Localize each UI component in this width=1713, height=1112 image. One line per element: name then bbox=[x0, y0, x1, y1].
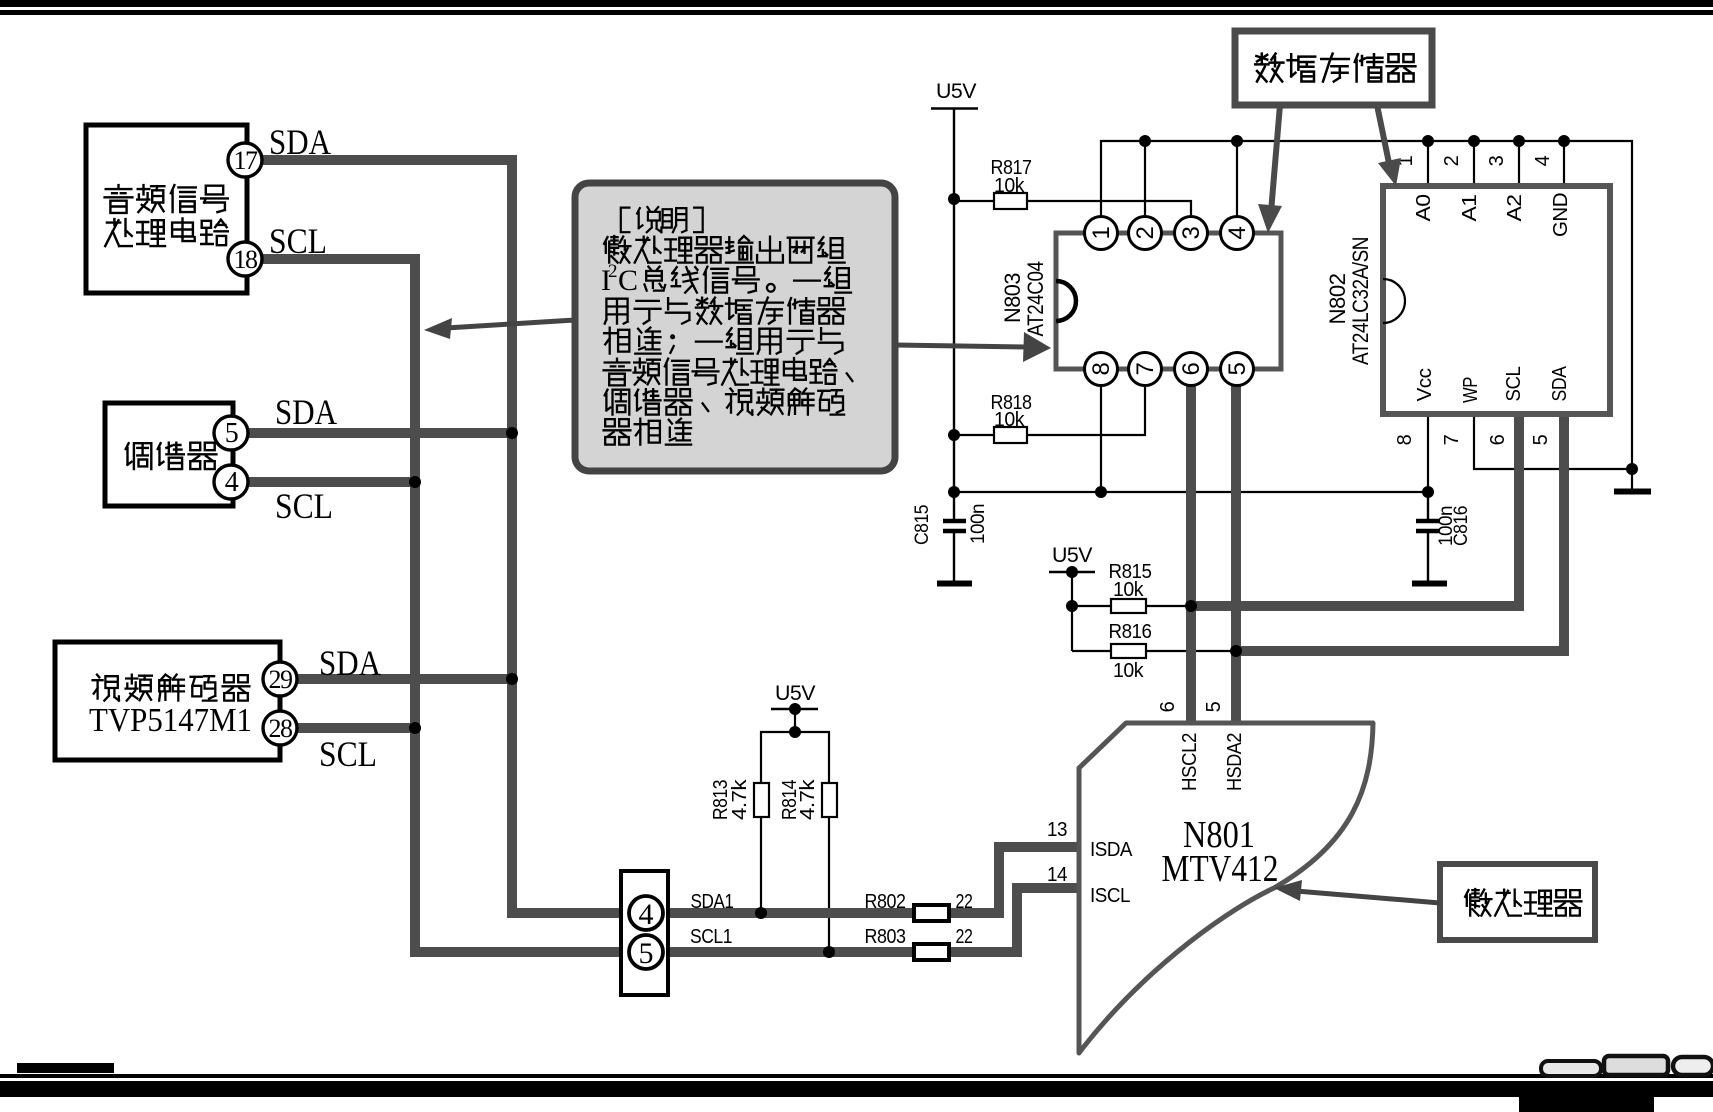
junction N803 pin8 Vcc bus bbox=[1095, 486, 1107, 498]
N802 pin labels inside bbox=[1413, 193, 1572, 403]
svg-text:U5V: U5V bbox=[775, 682, 815, 705]
svg-text:17: 17 bbox=[234, 146, 259, 175]
label C815 100n bbox=[912, 504, 989, 545]
svg-text:AT24C04: AT24C04 bbox=[1023, 261, 1048, 336]
ground symbol right bbox=[1614, 489, 1651, 495]
junction R816 on HSDA2 bbox=[1230, 645, 1242, 657]
pin 5 bbox=[214, 416, 248, 450]
svg-text:6: 6 bbox=[1178, 362, 1205, 375]
junction U5V rail Vcc bus bbox=[948, 486, 960, 498]
label N803 AT24C04 bbox=[1000, 261, 1048, 336]
audio signal processing circuit box bbox=[86, 125, 247, 293]
resistor R803 bbox=[865, 926, 973, 960]
svg-text:N802: N802 bbox=[1325, 273, 1350, 324]
svg-text:5: 5 bbox=[1224, 362, 1251, 375]
wire tuner SDA bbox=[248, 428, 512, 438]
pin 29 bbox=[263, 662, 297, 696]
svg-text:WP: WP bbox=[1460, 377, 1482, 403]
svg-text:GND: GND bbox=[1550, 193, 1572, 237]
connector pin 5 bbox=[629, 935, 663, 970]
junction N802 A2 bus bbox=[1513, 135, 1525, 147]
svg-text:SCL1: SCL1 bbox=[690, 926, 732, 948]
svg-text:10k: 10k bbox=[1113, 660, 1144, 682]
junction GND WP bbox=[1626, 463, 1638, 475]
svg-text:22: 22 bbox=[956, 926, 973, 948]
svg-text:A2: A2 bbox=[1504, 194, 1526, 221]
svg-text:HSCL2: HSCL2 bbox=[1179, 733, 1201, 791]
N803 pin 4 bbox=[1221, 217, 1254, 250]
svg-text:10k: 10k bbox=[1113, 579, 1144, 601]
svg-text:7: 7 bbox=[1132, 362, 1159, 375]
wire HSCL2 vertical N803 pin6 to N801 bbox=[1186, 369, 1196, 728]
svg-text:29: 29 bbox=[269, 665, 293, 694]
wire ISCL R803 to N801 pin14 bbox=[947, 888, 1082, 952]
resistor R816 bbox=[1109, 621, 1152, 682]
svg-text:TVP5147M1: TVP5147M1 bbox=[89, 702, 252, 739]
svg-text:5: 5 bbox=[225, 418, 238, 449]
junction R815/R816 left bbox=[1066, 600, 1078, 612]
junction tuner SDA on SDA bus bbox=[506, 427, 518, 439]
wire bottom bus Vcc bbox=[954, 383, 1428, 492]
N803 pin 1 bbox=[1085, 217, 1118, 250]
wire SCL bus from pin18 bbox=[258, 259, 916, 952]
svg-text:ISCL: ISCL bbox=[1090, 885, 1130, 907]
junction N803 pin2 bus bbox=[1139, 135, 1151, 147]
IC N803 AT24C04 body with notch bbox=[1056, 233, 1281, 369]
arrow microprocessor box to N801 bbox=[1274, 880, 1440, 903]
svg-text:A1: A1 bbox=[1459, 194, 1481, 221]
svg-text:3: 3 bbox=[1178, 226, 1205, 239]
svg-text:SDA: SDA bbox=[319, 643, 381, 683]
svg-text:6: 6 bbox=[1157, 701, 1179, 712]
svg-text:SDA1: SDA1 bbox=[691, 891, 734, 913]
svg-text:4: 4 bbox=[639, 898, 654, 931]
junction U5V right symbol bbox=[1066, 566, 1078, 578]
junction tuner SCL on SCL bus bbox=[409, 476, 421, 488]
svg-text:N803: N803 bbox=[1000, 273, 1025, 323]
svg-text:SCL: SCL bbox=[275, 486, 333, 526]
N803 pin 7 bbox=[1129, 353, 1162, 386]
svg-text:8: 8 bbox=[1088, 362, 1115, 375]
wire ISDA R802 to N801 pin13 bbox=[947, 847, 1082, 913]
svg-text:4.7k: 4.7k bbox=[729, 778, 751, 820]
N803 pin 8 bbox=[1085, 353, 1118, 386]
wire R813/R814 top harness bbox=[761, 732, 829, 783]
note box 说明 bbox=[575, 183, 895, 471]
chip N802 AT24LC32A/SN body bbox=[1383, 186, 1610, 414]
wire R817 row bbox=[954, 201, 1191, 220]
power symbol U5V right bbox=[1049, 544, 1095, 651]
svg-text:MTV412: MTV412 bbox=[1162, 848, 1279, 890]
svg-text:13: 13 bbox=[1047, 819, 1067, 841]
svg-text:HSDA2: HSDA2 bbox=[1224, 733, 1246, 791]
arrow note to SCL bus bbox=[424, 318, 575, 339]
microprocessor label box bbox=[1440, 864, 1595, 940]
svg-text:8: 8 bbox=[1394, 434, 1416, 445]
svg-text:10k: 10k bbox=[994, 175, 1025, 197]
wire R818 row bbox=[954, 383, 1145, 435]
junction R815 on HSCL2 bbox=[1185, 600, 1197, 612]
svg-text:4: 4 bbox=[1224, 226, 1251, 239]
resistor R815 bbox=[1109, 561, 1152, 613]
power symbol U5V top bbox=[931, 80, 978, 109]
resistor R813 bbox=[710, 778, 769, 820]
svg-text:C816: C816 bbox=[1451, 506, 1472, 546]
wire R815 row bbox=[1072, 605, 1191, 607]
svg-text:C: C bbox=[618, 264, 638, 297]
resistor R802 bbox=[865, 891, 973, 921]
svg-text:7: 7 bbox=[1441, 434, 1463, 445]
junction N802 Vcc C816 bbox=[1422, 486, 1434, 498]
IC N801 MTV412 microprocessor body bbox=[1079, 723, 1373, 1053]
svg-text:4: 4 bbox=[1532, 155, 1554, 166]
wire video SDA bbox=[297, 674, 512, 684]
svg-text:SCL: SCL bbox=[319, 734, 377, 774]
power rail U5V vertical (top) bbox=[953, 108, 955, 492]
svg-text:SCL: SCL bbox=[269, 221, 327, 261]
resistor R814 bbox=[779, 778, 837, 820]
N802 pin numbers bbox=[1394, 155, 1554, 445]
svg-text:SCL: SCL bbox=[1503, 366, 1525, 401]
svg-text:SDA: SDA bbox=[269, 122, 331, 162]
wire SDA to N802 pin5 bbox=[1236, 412, 1564, 651]
N803 pin 3 bbox=[1175, 217, 1208, 250]
N803 pin 2 bbox=[1129, 217, 1162, 250]
video decoder box TVP5147M1 bbox=[55, 642, 280, 760]
connector pin 4 bbox=[629, 896, 663, 931]
junction N802 A1 bus bbox=[1468, 135, 1480, 147]
wire video SCL bbox=[297, 723, 415, 733]
pin 17 bbox=[228, 143, 262, 177]
resistor R818 bbox=[991, 392, 1032, 443]
junction N802 GND bus bbox=[1558, 135, 1570, 147]
label N802 AT24LC32A/SN bbox=[1325, 237, 1373, 365]
capacitor C815 bbox=[937, 492, 972, 584]
svg-text:3: 3 bbox=[1486, 155, 1508, 166]
svg-text:Vcc: Vcc bbox=[1414, 368, 1436, 402]
data memory label box bbox=[1235, 31, 1432, 105]
svg-text:R803: R803 bbox=[865, 926, 906, 948]
svg-text:ISDA: ISDA bbox=[1090, 839, 1133, 861]
svg-text:100n: 100n bbox=[968, 504, 989, 544]
wire WP to ground bbox=[1474, 414, 1632, 469]
svg-text:5: 5 bbox=[639, 937, 654, 970]
N803 pin 6 bbox=[1175, 353, 1208, 386]
svg-text:C815: C815 bbox=[912, 505, 933, 545]
svg-text:5: 5 bbox=[1203, 701, 1225, 712]
junction video SDA on SDA bus bbox=[506, 673, 518, 685]
svg-text:5: 5 bbox=[1530, 434, 1552, 445]
svg-text:4.7k: 4.7k bbox=[797, 778, 819, 820]
label SDA1 SCL1 bbox=[690, 891, 734, 948]
resistor R817 bbox=[991, 157, 1032, 209]
wire tuner SCL bbox=[248, 477, 415, 487]
svg-text:28: 28 bbox=[269, 714, 294, 743]
scan artifact pills bottom right bbox=[1541, 1056, 1713, 1076]
wire R813 bottom bbox=[760, 817, 762, 913]
junction R813/R814 top bbox=[789, 726, 801, 738]
junction U5V rail R817 bbox=[948, 193, 960, 205]
power symbol U5V middle bbox=[771, 682, 818, 732]
junction N802 A0 bus bbox=[1422, 135, 1434, 147]
junction video SCL on SCL bus bbox=[409, 722, 421, 734]
connector pins 4/5 box bbox=[621, 871, 668, 995]
svg-text:SDA: SDA bbox=[1549, 365, 1571, 401]
tuner box bbox=[105, 403, 233, 506]
junction U5V rail R818 bbox=[948, 429, 960, 441]
svg-text:2: 2 bbox=[608, 261, 618, 282]
label C816 100n bbox=[1436, 506, 1472, 546]
wire SDA bus from pin17 bbox=[258, 160, 916, 913]
wire R814 bottom bbox=[828, 817, 830, 952]
N803 pin 5 bbox=[1221, 353, 1254, 386]
svg-text:10k: 10k bbox=[994, 409, 1025, 431]
svg-text:U5V: U5V bbox=[936, 80, 976, 103]
svg-text:4: 4 bbox=[225, 467, 239, 498]
wire HSDA2 vertical N803 pin5 to N801 bbox=[1231, 369, 1241, 728]
arrow databox to N803 bbox=[1258, 105, 1282, 233]
svg-text:U5V: U5V bbox=[1052, 544, 1092, 567]
svg-text:14: 14 bbox=[1047, 864, 1067, 886]
svg-text:A0: A0 bbox=[1413, 194, 1435, 221]
svg-text:18: 18 bbox=[234, 245, 259, 274]
junction R813 on SDA1 bbox=[755, 907, 767, 919]
arrow note to N803 bbox=[895, 332, 1051, 362]
svg-text:6: 6 bbox=[1487, 434, 1509, 445]
pin 4 bbox=[214, 465, 248, 499]
svg-text:1: 1 bbox=[1088, 226, 1115, 239]
svg-text:AT24LC32A/SN: AT24LC32A/SN bbox=[1348, 237, 1373, 365]
pin 28 bbox=[263, 711, 297, 745]
svg-text:SDA: SDA bbox=[275, 392, 337, 432]
wire SCL to N802 pin6 bbox=[1191, 412, 1519, 606]
pin 18 bbox=[228, 242, 262, 276]
svg-text:R802: R802 bbox=[865, 891, 906, 913]
junction U5V mid symbol bbox=[789, 703, 801, 715]
svg-text:2: 2 bbox=[1132, 226, 1159, 239]
wire R816 row bbox=[1072, 650, 1236, 652]
svg-text:R816: R816 bbox=[1109, 621, 1152, 643]
wire top bus N803/N802 pins bbox=[1101, 141, 1632, 489]
N801 pin labels bbox=[1047, 701, 1246, 907]
junction N803 pin4 bus bbox=[1231, 135, 1243, 147]
svg-text:22: 22 bbox=[956, 891, 973, 913]
junction R814 on SCL1 bbox=[823, 946, 835, 958]
svg-text:2: 2 bbox=[1441, 155, 1463, 166]
arrow databox to N802 bbox=[1377, 105, 1401, 186]
capacitor C816 bbox=[1412, 492, 1447, 584]
